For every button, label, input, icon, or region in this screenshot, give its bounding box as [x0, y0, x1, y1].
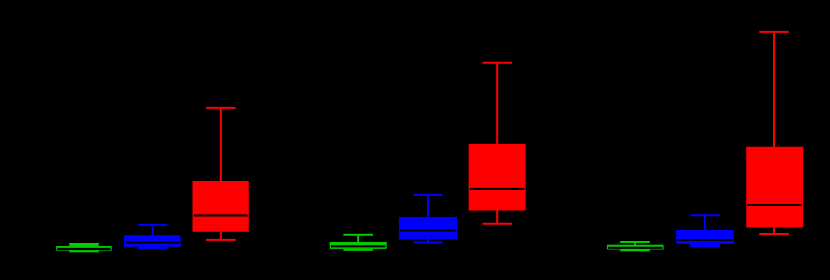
boxplot blue1: [124, 225, 181, 249]
boxplot red3: [746, 32, 803, 234]
boxplot blue3: [676, 215, 734, 247]
boxplot red2: [469, 63, 526, 224]
boxplot green2: [330, 235, 387, 251]
boxplot red1: [193, 108, 249, 240]
boxplot blue2: [399, 195, 457, 243]
boxplot green1: [56, 243, 111, 252]
boxplot green3: [607, 242, 664, 251]
